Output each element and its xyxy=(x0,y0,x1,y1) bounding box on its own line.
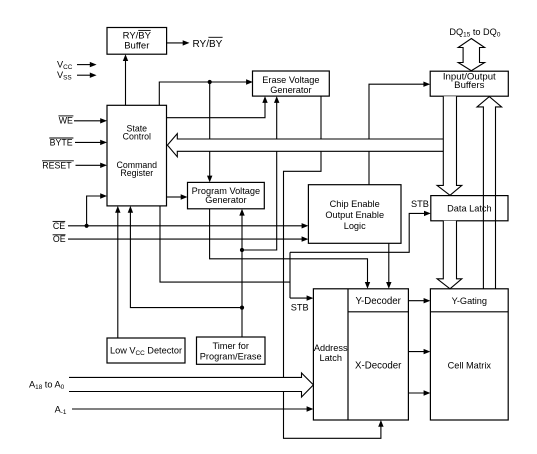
svg-text:Generator: Generator xyxy=(270,85,311,95)
label Vcc pin xyxy=(57,59,73,71)
junction dot timer line at y=307.6 xyxy=(240,306,244,310)
block U11 Y-Gating / Cell Matrix xyxy=(430,289,508,420)
block U2 State Control / Command Register xyxy=(107,105,167,206)
junction dot on CE line at x=86.6 xyxy=(85,224,89,228)
svg-text:RY/BY: RY/BY xyxy=(193,39,223,50)
label RESET input xyxy=(42,160,74,170)
block U5 Chip Enable Output Enable Logic xyxy=(308,185,401,244)
svg-text:Register: Register xyxy=(120,168,153,178)
wire CE branch up to state control xyxy=(87,193,107,226)
label DQ15 to DQ0 bus xyxy=(449,27,500,39)
svg-text:BYTE: BYTE xyxy=(50,138,73,148)
svg-text:A18 to A0: A18 to A0 xyxy=(29,379,65,391)
svg-text:Program/Erase: Program/Erase xyxy=(200,351,262,361)
wire chip enable logic top to input/output buffers xyxy=(369,82,430,185)
wire state control to program voltage generator xyxy=(167,194,188,199)
bus hollow arrow data bus into state control xyxy=(167,134,443,157)
svg-text:Low VCC Detector: Low VCC Detector xyxy=(110,346,182,358)
wire CE to chip enable logic xyxy=(68,223,308,228)
junction dot on erase line at x=209.7 xyxy=(208,80,212,84)
wire STB vertical segment x=290 xyxy=(289,252,291,298)
bus hollow bidirectional arrow DQ15-DQ0 xyxy=(458,39,484,71)
block U8 Low Vcc Detector xyxy=(107,338,185,363)
wire WE to state control xyxy=(74,118,107,123)
wire timer branch to erase voltage generator bottom xyxy=(242,96,279,250)
wire RESET to state control xyxy=(76,163,108,168)
wire OE to chip enable logic xyxy=(68,236,308,241)
svg-text:Erase Voltage: Erase Voltage xyxy=(262,75,319,85)
block U7 Data Latch xyxy=(431,196,508,221)
svg-text:OE: OE xyxy=(53,234,66,244)
label A-1 input xyxy=(55,404,67,416)
svg-text:DQ15 to DQ0: DQ15 to DQ0 xyxy=(449,27,500,39)
wire Vss arrow xyxy=(77,73,97,78)
bus hollow arrow data latch down to Y-gating xyxy=(437,221,462,289)
svg-text:Generator: Generator xyxy=(205,195,246,205)
wire BYTE to state control xyxy=(75,140,107,145)
wire RY/BY buffer output xyxy=(167,40,190,45)
wire STB to address latch xyxy=(290,295,313,300)
block U10 Address Latch / Y-Decoder / X-Decoder xyxy=(313,289,408,420)
wire state control to RY/BY buffer xyxy=(123,54,128,105)
label STB at address latch xyxy=(291,302,309,312)
wire STB net from state control bottom xyxy=(160,206,290,282)
wire timer branch to state control bottom xyxy=(128,206,242,308)
svg-text:Address: Address xyxy=(314,343,348,353)
svg-text:Control: Control xyxy=(123,132,151,142)
svg-text:Y-Gating: Y-Gating xyxy=(452,296,487,306)
wire timer output up to program voltage generator xyxy=(239,209,244,337)
wire Vcc arrow xyxy=(77,62,97,67)
wire X-decoder to cell matrix upper xyxy=(408,349,430,354)
svg-text:Buffer: Buffer xyxy=(124,40,149,51)
junction dot timer line at y=250 xyxy=(240,248,244,252)
label Vss pin xyxy=(57,70,72,82)
label A18 to A0 bus xyxy=(29,379,65,391)
bus hollow arrow Y-gating up to I/O buffers xyxy=(477,97,502,289)
wire chip enable logic bottom to Y-decoder top xyxy=(386,243,391,288)
block U3 Erase Voltage Generator xyxy=(253,71,330,96)
label STB at data latch xyxy=(411,199,429,209)
block U6 Input/Output Buffers xyxy=(430,71,508,96)
block U1 RY/BY Buffer xyxy=(107,28,167,55)
wire A-1 to address latch xyxy=(72,406,313,411)
label OE input xyxy=(53,234,66,244)
wire Y-decoder to Y-gating xyxy=(408,298,430,303)
svg-text:Data Latch: Data Latch xyxy=(447,203,491,213)
wire X-decoder to cell matrix lower xyxy=(408,390,430,395)
svg-text:Timer for: Timer for xyxy=(212,341,248,351)
wire state control right to erase generator bottom xyxy=(167,96,268,118)
label WE input xyxy=(58,115,73,125)
svg-text:X-Decoder: X-Decoder xyxy=(355,361,402,372)
svg-text:Chip Enable: Chip Enable xyxy=(330,199,380,209)
svg-text:STB: STB xyxy=(411,199,429,209)
label BYTE input xyxy=(49,138,73,148)
svg-text:RESET: RESET xyxy=(42,160,72,170)
label RY/BY output net xyxy=(193,37,223,50)
svg-text:Buffers: Buffers xyxy=(454,80,484,91)
wire program voltage generator bottom to Y-decoder top xyxy=(210,209,371,289)
svg-text:Cell Matrix: Cell Matrix xyxy=(448,361,492,371)
wire erase generator bottom feedback to X-decoder bottom xyxy=(284,96,384,438)
block U9 Timer for Program/Erase xyxy=(197,337,266,364)
svg-text:Output Enable: Output Enable xyxy=(325,210,384,220)
wire junction down to program voltage generator top xyxy=(207,82,212,182)
wire low Vcc detector to state control xyxy=(115,206,120,338)
svg-text:Y-Decoder: Y-Decoder xyxy=(355,296,401,307)
svg-text:STB: STB xyxy=(291,302,309,312)
svg-text:WE: WE xyxy=(59,115,73,125)
svg-text:Latch: Latch xyxy=(319,353,341,363)
block U4 Program Voltage Generator xyxy=(188,182,265,208)
wire state control top to erase voltage generator xyxy=(159,79,253,105)
svg-text:Logic: Logic xyxy=(344,221,366,231)
svg-text:CE: CE xyxy=(53,221,65,231)
wire STB over to data latch xyxy=(290,211,431,253)
bus hollow arrow I/O buffers down to data latch xyxy=(437,96,462,195)
bus hollow arrow A18-A0 into address latch xyxy=(69,373,313,397)
label CE input xyxy=(53,221,66,231)
